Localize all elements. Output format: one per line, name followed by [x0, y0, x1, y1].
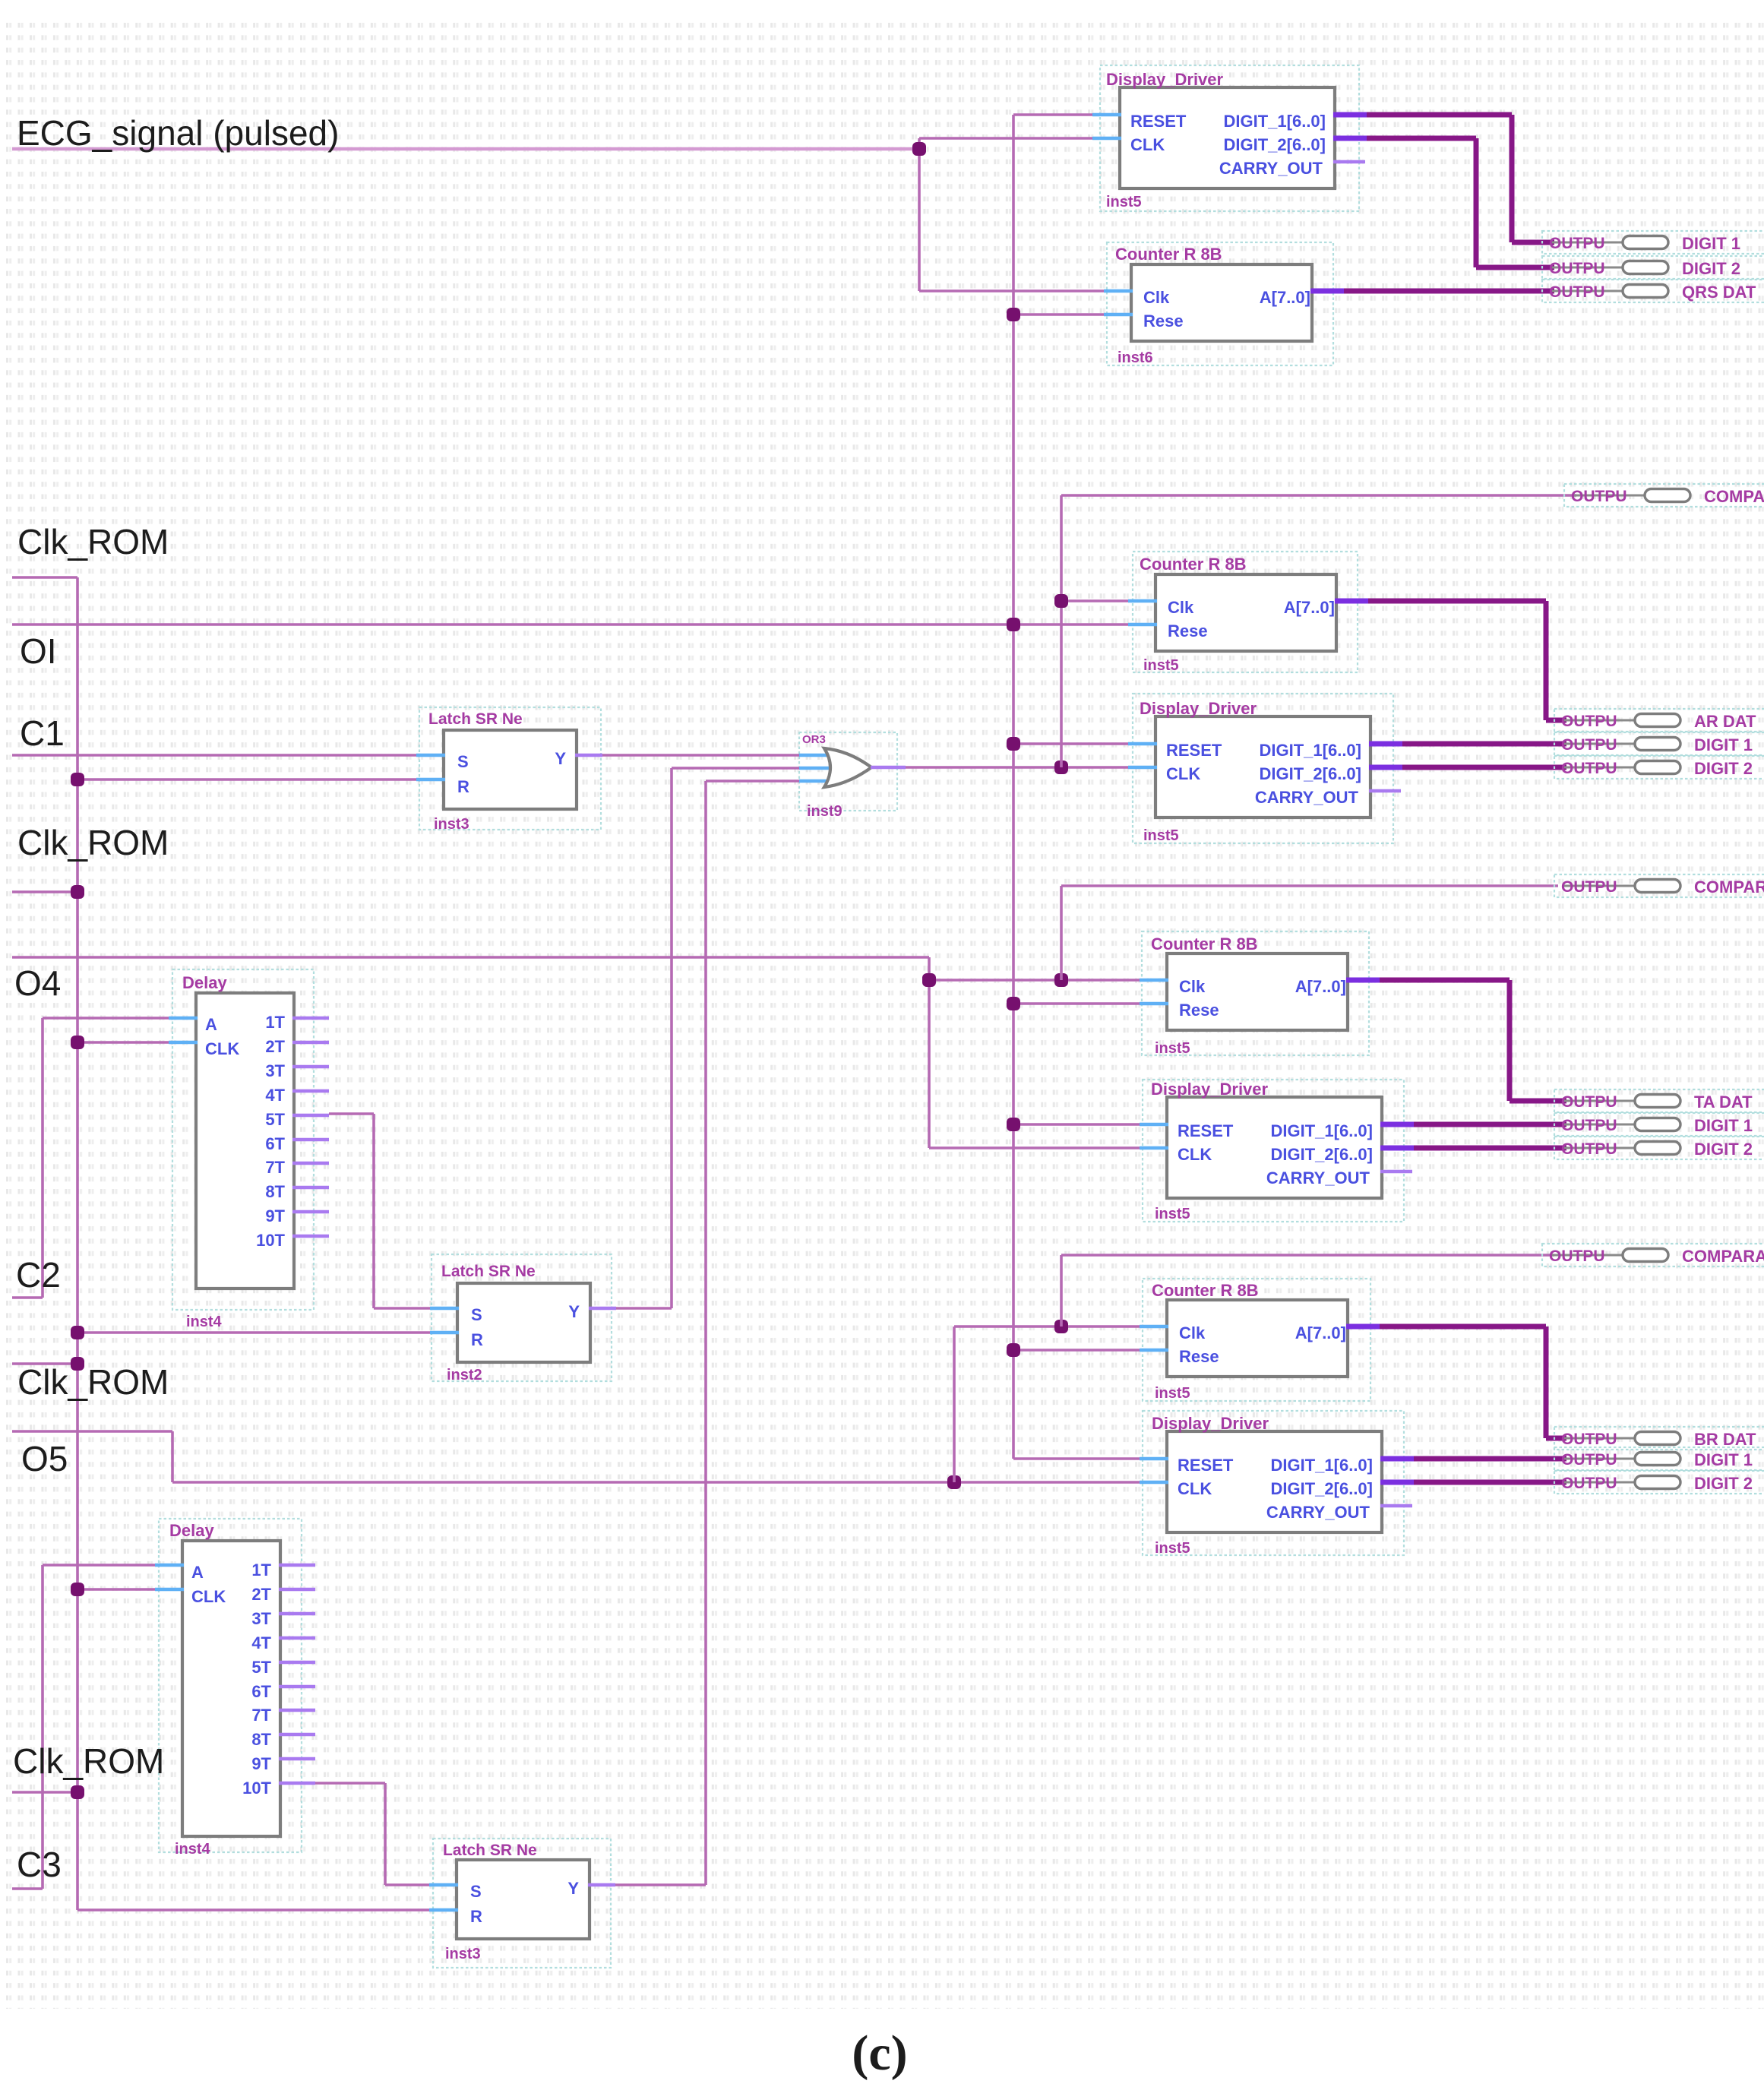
selection box Counter_R_8B inst5 (stage4) [1143, 1279, 1370, 1401]
pin stub CLK Display_Driver stage4 [1140, 1481, 1168, 1485]
junction Clk_ROM y=2092 [71, 1583, 84, 1596]
wire ECG branch to Clk of Counter inst6 [919, 289, 1105, 292]
out stub 3T Delay1 [292, 1065, 329, 1069]
output pin DIGIT (stage4 a) [1554, 1447, 1764, 1470]
svg-text:inst5: inst5 [1155, 1385, 1190, 1402]
pin stub OR input 2 [799, 767, 837, 770]
wire Clk_ROM branch to R of Latch inst3 (bottom) [77, 1908, 431, 1912]
junction Clk_ROM y=1795 [71, 1357, 84, 1371]
out stub 9T Delay1 [292, 1210, 329, 1214]
svg-text:Rese: Rese [1143, 311, 1184, 330]
wire C2 to A of Delay inst4 (top) [43, 1017, 170, 1020]
svg-text:AR DAT: AR DAT [1694, 712, 1756, 731]
svg-text:2T: 2T [265, 1037, 285, 1056]
svg-text:Clk_ROM: Clk_ROM [17, 823, 169, 862]
wire C3 vertical x=56 [41, 1565, 44, 1889]
svg-text:CLK: CLK [191, 1587, 226, 1606]
svg-text:inst9: inst9 [807, 803, 842, 820]
wire Latch1 Y to OR gate input 1 [601, 754, 799, 757]
svg-text:8T: 8T [265, 1182, 285, 1201]
svg-text:S: S [457, 752, 469, 771]
svg-text:BR DAT: BR DAT [1694, 1430, 1756, 1449]
svg-text:Y: Y [555, 749, 566, 768]
svg-text:Clk: Clk [1179, 1323, 1206, 1342]
junction ECG x=1210 y=196 [912, 142, 926, 156]
svg-text:DIGIT_2[6..0]: DIGIT_2[6..0] [1271, 1479, 1373, 1498]
out stub Y Latch2 [589, 1307, 616, 1311]
pin stub Clk Counter stage4 [1140, 1325, 1168, 1329]
out stub 1T Delay1 [292, 1017, 329, 1020]
svg-text:CLK: CLK [1178, 1479, 1212, 1498]
junction OI x=1334 y=822 [1007, 618, 1020, 631]
svg-text:R: R [470, 1907, 482, 1926]
svg-text:OUTPU: OUTPU [1561, 1475, 1617, 1492]
out stub 4T Delay2 [279, 1636, 315, 1640]
bus DIGIT_2[6..0] stage1 to DIGIT 2 pin [1367, 136, 1476, 141]
output pin QRS DAT (stage1) [1542, 280, 1764, 302]
svg-text:4T: 4T [265, 1086, 285, 1105]
svg-text:DIGIT_1[6..0]: DIGIT_1[6..0] [1224, 112, 1326, 131]
selection box Display_Driver inst5 (stage2) [1133, 694, 1393, 843]
svg-text:R: R [471, 1330, 483, 1349]
junction Clk_ROM y=1372 [71, 1036, 84, 1049]
bus stub DIGIT_2 DD3 [1380, 1146, 1414, 1151]
svg-text:A[7..0]: A[7..0] [1284, 598, 1335, 617]
bus stub DIGIT_1 DD3 [1380, 1122, 1414, 1127]
svg-text:1T: 1T [251, 1561, 271, 1579]
bus A[7..0] Counter stage4 to BR pin [1380, 1324, 1546, 1330]
svg-text:OUTPU: OUTPU [1549, 260, 1605, 277]
wire reset branch to RESET of Display_Driver stage3 [1013, 1123, 1141, 1126]
wire O5 riser to COMPAR pin x=1397 [1060, 1255, 1063, 1327]
svg-text:DIGIT 1: DIGIT 1 [1694, 1116, 1753, 1135]
junction Clk_ROM y=2359 [71, 1785, 84, 1799]
output pin COMPA (stage2 comparator) [1554, 874, 1764, 897]
svg-text:A: A [191, 1563, 204, 1582]
output pin DIGIT 2 (stage1) [1542, 256, 1764, 279]
svg-text:Y: Y [568, 1302, 580, 1321]
wire Clk_ROM branch to R of Latch inst2 [77, 1331, 432, 1334]
svg-text:DIGIT 2: DIGIT 2 [1694, 759, 1753, 778]
svg-text:TA DAT: TA DAT [1694, 1093, 1753, 1111]
svg-text:DIGIT 2: DIGIT 2 [1694, 1474, 1753, 1493]
svg-text:RESET: RESET [1178, 1121, 1234, 1140]
pin stub Rese Counter stage4 [1140, 1349, 1168, 1352]
pin stub S Latch1 [416, 754, 445, 757]
svg-text:C1: C1 [20, 713, 65, 753]
svg-text:DIGIT 2: DIGIT 2 [1682, 259, 1740, 278]
out stub 7T Delay2 [279, 1709, 315, 1712]
wire to COMP output pin [1061, 494, 1576, 497]
svg-text:C2: C2 [16, 1255, 61, 1295]
wire Clk_ROM trunk vertical x=102 [76, 577, 79, 1910]
svg-text:OUTPU: OUTPU [1561, 1431, 1617, 1448]
output pin DIGIT (stage3 b) [1554, 1137, 1764, 1159]
wire Clk_ROM input 1 [12, 576, 77, 579]
svg-text:inst5: inst5 [1155, 1206, 1190, 1222]
svg-text:OUTPU: OUTPU [1561, 878, 1617, 896]
svg-text:Display_Driver: Display_Driver [1151, 1080, 1269, 1099]
junction O4 x=1397 y=1290 [1054, 973, 1068, 987]
wire branch to Clk of Counter stage2 [1061, 599, 1130, 602]
selection box Display_Driver inst5 (stage3) [1143, 1080, 1404, 1222]
svg-text:OUTPU: OUTPU [1561, 760, 1617, 777]
svg-text:Rese: Rese [1179, 1347, 1219, 1366]
pin stub CLK Delay1 [169, 1041, 198, 1045]
pin stub CLK Display_Driver stage2 [1128, 766, 1157, 770]
pin stub A Delay2 [155, 1564, 184, 1567]
svg-text:CARRY_OUT: CARRY_OUT [1219, 159, 1323, 178]
output pin DIGIT (stage3 a) [1554, 1113, 1764, 1136]
wire Delay1 5T to S of Latch inst2 [329, 1112, 374, 1115]
svg-text:CLK: CLK [1178, 1145, 1212, 1164]
wire Latch2 Y to OR gate input 2 [615, 1307, 672, 1310]
block Latch_SR_Ne inst3 (bottom) [457, 1860, 590, 1939]
svg-text:OUTPU: OUTPU [1549, 235, 1605, 252]
junction reset x=1334 y=1480 [1007, 1118, 1020, 1131]
pin stub RESET Display_Driver stage4 [1140, 1457, 1168, 1461]
out stub 6T Delay1 [292, 1138, 329, 1142]
bus DIGIT_1[6..0] stage4 to DIGIT pin [1414, 1456, 1566, 1462]
selection box Counter_R_8B inst5 (stage3) [1142, 931, 1369, 1055]
svg-text:OUTPU: OUTPU [1561, 736, 1617, 754]
pin stub R Latch3 [429, 1908, 458, 1912]
block Display_Driver inst5 (top) [1120, 87, 1335, 188]
out stub CARRY_OUT DD2 [1369, 789, 1401, 793]
wire O5 riser x=1256 [953, 1327, 956, 1482]
wire reset branch to Rese of Counter stage4 [1013, 1349, 1141, 1352]
svg-text:Delay: Delay [169, 1521, 214, 1540]
block Latch_SR_Ne inst3 (top) [444, 730, 577, 809]
svg-text:OUTPU: OUTPU [1561, 1093, 1617, 1111]
bus DIGIT_2[6..0] stage2 to DIGIT pin [1402, 765, 1566, 770]
selection box Latch_SR_Ne inst3 (bottom) [433, 1839, 611, 1968]
output pin AR DAT (stage2) [1554, 709, 1764, 732]
svg-text:A[7..0]: A[7..0] [1295, 977, 1346, 996]
svg-text:Counter R 8B: Counter R 8B [1140, 555, 1247, 574]
svg-text:DIGIT_2[6..0]: DIGIT_2[6..0] [1260, 764, 1361, 783]
svg-text:6T: 6T [265, 1134, 285, 1153]
out stub CARRY_OUT DD3 [1380, 1170, 1412, 1174]
wire Clk_ROM input 2 [12, 890, 77, 893]
block Display_Driver inst5 (stage4) [1167, 1431, 1382, 1532]
junction O5 x=1256 y=1951 [947, 1475, 961, 1489]
svg-text:7T: 7T [265, 1158, 285, 1177]
output pin BR DAT (stage4) [1554, 1427, 1764, 1450]
wire OI reset trunk vertical x=1334 [1012, 115, 1015, 1459]
svg-text:COMPARA: COMPARA [1682, 1247, 1764, 1266]
svg-text:A: A [205, 1015, 217, 1034]
pin stub Clk Counter inst6 [1104, 289, 1133, 293]
svg-text:CARRY_OUT: CARRY_OUT [1266, 1503, 1370, 1522]
wire reset branch to RESET of Display_Driver inst5 (top) [1013, 113, 1094, 116]
svg-text:RESET: RESET [1130, 112, 1187, 131]
wire C2 input line [12, 1296, 43, 1299]
wire O5 input line [12, 1430, 172, 1433]
svg-text:(c): (c) [852, 2025, 907, 2081]
svg-text:ECG_signal (pulsed): ECG_signal (pulsed) [17, 113, 339, 153]
out stub 1T Delay2 [279, 1564, 315, 1567]
svg-text:DIGIT 1: DIGIT 1 [1682, 234, 1740, 253]
svg-text:3T: 3T [265, 1061, 285, 1080]
svg-text:Display_Driver: Display_Driver [1106, 70, 1224, 89]
block Latch_SR_Ne inst2 [457, 1283, 590, 1362]
svg-text:inst5: inst5 [1143, 657, 1179, 674]
pin stub CLK Delay2 [155, 1588, 184, 1592]
wire OR gate output to CLK of Display_Driver stage2 [904, 766, 1130, 769]
svg-text:R: R [457, 777, 469, 796]
out stub Y Latch3 [588, 1883, 615, 1887]
junction Clk_ROM y=1026 [71, 773, 84, 786]
svg-text:S: S [471, 1305, 482, 1324]
output pin DIGIT (stage2 a) [1554, 732, 1764, 755]
selection box OR gate inst9 [799, 732, 897, 811]
svg-text:Clk: Clk [1168, 598, 1194, 617]
pin stub S Latch3 [429, 1883, 458, 1887]
output pin COMPAR (stage3 comparator) [1542, 1244, 1764, 1266]
pin stub Clk Counter stage3 [1140, 979, 1168, 982]
bus stub A Counter3 [1346, 978, 1380, 983]
bus DIGIT_1[6..0] stage3 to DIGIT pin [1414, 1122, 1566, 1127]
svg-text:OUTPU: OUTPU [1549, 283, 1605, 301]
svg-text:DIGIT 1: DIGIT 1 [1694, 735, 1753, 754]
wire O4 input line [12, 956, 929, 959]
svg-text:Y: Y [567, 1879, 579, 1898]
svg-text:COMPA: COMPA [1704, 487, 1764, 506]
bus stub DIGIT_2 DD1 [1333, 136, 1367, 141]
wire Latch3 Y to OR gate input 3 [614, 1883, 706, 1886]
wire ECG vertical riser x=1210 [918, 138, 921, 291]
out stub 4T Delay1 [292, 1089, 329, 1093]
out stub Y Latch1 [575, 754, 602, 757]
svg-text:9T: 9T [265, 1206, 285, 1225]
svg-text:C3: C3 [17, 1845, 62, 1884]
out stub 8T Delay2 [279, 1733, 315, 1737]
pin stub OR input 3 [799, 779, 830, 783]
svg-text:CLK: CLK [1130, 135, 1165, 154]
wire Clk_ROM input 4 [12, 1791, 77, 1794]
svg-text:S: S [470, 1882, 482, 1901]
block Counter_R_8B inst5 (stage4) [1167, 1300, 1348, 1377]
svg-text:O5: O5 [21, 1439, 68, 1478]
svg-text:O4: O4 [14, 963, 61, 1003]
svg-text:Latch SR Ne: Latch SR Ne [441, 1263, 536, 1280]
block Counter_R_8B inst5 (stage2) [1155, 574, 1336, 651]
svg-text:A[7..0]: A[7..0] [1295, 1323, 1346, 1342]
bus DIGIT_2[6..0] stage3 to DIGIT pin [1414, 1146, 1566, 1151]
or-gate OR3 body [824, 748, 871, 787]
junction reset x=1334 y=1777 [1007, 1343, 1020, 1357]
output pin COMP (stage1 comparator) [1564, 484, 1764, 507]
svg-text:DIGIT_2[6..0]: DIGIT_2[6..0] [1271, 1145, 1373, 1164]
svg-text:2T: 2T [251, 1585, 271, 1604]
wire reset branch to Rese of Counter stage3 [1013, 1002, 1141, 1005]
pin stub CLK Display_Driver top [1092, 137, 1121, 141]
pin stub Rese Counter stage2 [1128, 623, 1157, 627]
selection box Counter_R_8B inst5 (stage2) [1133, 552, 1358, 672]
wire O5 to CLK of Display_Driver stage4 [172, 1481, 1141, 1484]
wire OI input line [12, 623, 1130, 626]
svg-text:Clk_ROM: Clk_ROM [17, 1362, 169, 1402]
svg-text:8T: 8T [251, 1730, 271, 1749]
selection box Delay inst4 (top) [172, 969, 314, 1310]
junction reset x=1334 y=1321 [1007, 997, 1020, 1010]
block Display_Driver inst5 (stage3) [1167, 1097, 1382, 1198]
selection box Display_Driver inst5 (stage4) [1143, 1411, 1404, 1555]
bus A[7..0] Counter inst6 to QRS pin [1344, 289, 1554, 294]
svg-text:Clk_ROM: Clk_ROM [13, 1741, 164, 1781]
svg-text:OUTPU: OUTPU [1571, 488, 1627, 505]
svg-text:9T: 9T [251, 1754, 271, 1773]
pin stub Rese Counter inst6 [1104, 313, 1133, 317]
wire Clk_ROM input 3 [12, 1362, 77, 1365]
junction reset x=1334 y=979 [1007, 737, 1020, 751]
svg-text:DIGIT_1[6..0]: DIGIT_1[6..0] [1271, 1121, 1373, 1140]
bus A[7..0] Counter stage2 to AR pin [1368, 599, 1546, 604]
svg-text:Rese: Rese [1179, 1001, 1219, 1020]
svg-text:7T: 7T [251, 1706, 271, 1725]
block Counter_R_8B inst5 (stage3) [1167, 953, 1348, 1030]
svg-text:5T: 5T [251, 1658, 271, 1677]
svg-text:OUTPU: OUTPU [1561, 713, 1617, 730]
pin stub Rese Counter stage3 [1140, 1002, 1168, 1006]
wire Clk_ROM branch to R of Latch inst3 (top) [77, 778, 418, 781]
svg-text:Display_Driver: Display_Driver [1140, 699, 1257, 718]
svg-text:CLK: CLK [1166, 764, 1200, 783]
svg-text:5T: 5T [265, 1110, 285, 1129]
bus DIGIT_2[6..0] stage4 to DIGIT pin [1414, 1480, 1566, 1485]
block Display_Driver inst5 (stage2) [1155, 716, 1370, 817]
bus DIGIT_1[6..0] stage1 to DIGIT 1 pin [1367, 112, 1512, 118]
bus DIGIT_1[6..0] stage2 to DIGIT pin [1402, 742, 1566, 747]
wire Clk_ROM branch to CLK of Delay inst4 (top) [77, 1041, 170, 1044]
wire O5 branch to Clk of Counter stage4 [954, 1325, 1141, 1328]
svg-text:DIGIT_1[6..0]: DIGIT_1[6..0] [1271, 1456, 1373, 1475]
bus stub DIGIT_1 DD4 [1380, 1456, 1414, 1462]
output pin TA DAT (stage3) [1554, 1089, 1764, 1112]
junction reset x=1334 y=414 [1007, 308, 1020, 321]
pin stub S Latch2 [430, 1307, 459, 1311]
wire ECG_signal (pulsed) horizontal [12, 147, 919, 151]
output pin DIGIT 1 (stage1) [1542, 231, 1764, 254]
wire reset branch to RESET of Display_Driver stage4 [1013, 1457, 1141, 1460]
out stub CARRY_OUT DD1 [1333, 160, 1365, 164]
svg-text:inst3: inst3 [445, 1946, 481, 1962]
svg-text:6T: 6T [251, 1682, 271, 1701]
svg-text:Clk: Clk [1143, 288, 1170, 307]
bus stub DIGIT_2 DD2 [1369, 765, 1402, 770]
bus stub A Counter1 [1310, 289, 1344, 294]
wire O4 vertical x=1223 [928, 957, 931, 1148]
svg-text:inst4: inst4 [175, 1841, 211, 1858]
svg-text:DIGIT 2: DIGIT 2 [1694, 1140, 1753, 1159]
junction O4 x=1223 y=1290 [922, 973, 936, 987]
pin stub RESET Display_Driver stage3 [1140, 1123, 1168, 1127]
svg-text:Delay: Delay [182, 973, 227, 992]
bus stub DIGIT_1 DD2 [1369, 742, 1402, 747]
wire O4 riser to COMPA pin x=1397 [1060, 886, 1063, 980]
wire O4 branch to Clk of Counter stage3 [929, 979, 1141, 982]
junction Clk_ROM y=1754 [71, 1326, 84, 1339]
svg-text:Counter R 8B: Counter R 8B [1115, 245, 1222, 264]
svg-text:RESET: RESET [1178, 1456, 1234, 1475]
wire O5 vertical x=227 [171, 1431, 174, 1482]
wire reset branch to Rese of Counter inst6 [1013, 313, 1105, 316]
svg-text:OUTPU: OUTPU [1549, 1247, 1605, 1265]
pin stub A Delay1 [169, 1017, 198, 1020]
svg-text:QRS DAT: QRS DAT [1682, 283, 1756, 302]
bus stub DIGIT_1 DD1 [1333, 112, 1367, 118]
wire Delay2 10T to S of Latch inst3 (bottom) [315, 1782, 385, 1785]
svg-text:OUTPU: OUTPU [1561, 1451, 1617, 1469]
out stub 9T Delay2 [279, 1757, 315, 1761]
pin stub Clk Counter stage2 [1128, 599, 1157, 603]
out stub 2T Delay2 [279, 1588, 315, 1592]
svg-text:DIGIT_1[6..0]: DIGIT_1[6..0] [1260, 741, 1361, 760]
pin stub RESET Display_Driver stage2 [1128, 742, 1157, 746]
wire to COMPA output pin [1061, 884, 1558, 887]
junction OR output x=1397 y=1010 [1054, 760, 1068, 774]
bus stub A Counter4 [1346, 1324, 1380, 1330]
out stub 2T Delay1 [292, 1041, 329, 1045]
selection box Display_Driver inst5 (top) [1100, 65, 1359, 211]
block Delay inst4 (bottom) [182, 1541, 280, 1836]
svg-text:Clk: Clk [1179, 977, 1206, 996]
svg-text:OUTPU: OUTPU [1561, 1140, 1617, 1158]
wire comparator riser x=1397 stage2 [1060, 495, 1063, 767]
svg-text:inst6: inst6 [1118, 349, 1153, 366]
svg-text:4T: 4T [251, 1633, 271, 1652]
svg-text:Latch SR Ne: Latch SR Ne [428, 710, 523, 728]
svg-text:inst5: inst5 [1155, 1540, 1190, 1557]
svg-text:10T: 10T [242, 1779, 271, 1798]
svg-text:Counter R 8B: Counter R 8B [1151, 934, 1258, 953]
out stub 6T Delay2 [279, 1685, 315, 1689]
block Delay inst4 (top) [196, 993, 294, 1289]
svg-text:3T: 3T [251, 1609, 271, 1628]
svg-text:OI: OI [20, 631, 57, 671]
wire to COMPAR output pin [1061, 1254, 1554, 1257]
svg-text:Counter R 8B: Counter R 8B [1152, 1281, 1259, 1300]
svg-text:inst5: inst5 [1143, 827, 1179, 844]
out stub 3T Delay2 [279, 1612, 315, 1616]
svg-text:inst5: inst5 [1155, 1040, 1190, 1057]
wire C1 to S of Latch inst3 (top) [12, 754, 418, 757]
svg-text:COMPAR: COMPAR [1694, 877, 1764, 896]
svg-text:DIGIT 1: DIGIT 1 [1694, 1450, 1753, 1469]
out stub CARRY_OUT DD4 [1380, 1504, 1412, 1508]
wire C3 input line [12, 1887, 43, 1890]
selection box Latch_SR_Ne inst3 (top) [419, 707, 601, 830]
out stub 5T Delay2 [279, 1661, 315, 1665]
svg-text:DIGIT_2[6..0]: DIGIT_2[6..0] [1224, 135, 1326, 154]
pin stub R Latch1 [416, 778, 445, 782]
selection box Delay inst4 (bottom) [159, 1519, 302, 1852]
svg-text:Clk_ROM: Clk_ROM [17, 522, 169, 561]
wire C2 vertical x=56 [41, 1018, 44, 1298]
out stub 8T Delay1 [292, 1186, 329, 1190]
bus A[7..0] Counter stage3 to TA pin [1380, 978, 1510, 983]
svg-text:inst2: inst2 [447, 1367, 482, 1383]
bus stub A Counter2 [1335, 599, 1368, 604]
svg-text:CARRY_OUT: CARRY_OUT [1266, 1168, 1370, 1187]
svg-text:inst3: inst3 [434, 816, 469, 833]
svg-text:1T: 1T [265, 1013, 285, 1032]
out stub 7T Delay1 [292, 1162, 329, 1165]
out stub 10T Delay2 [279, 1782, 315, 1785]
svg-text:Rese: Rese [1168, 621, 1208, 640]
pin stub R Latch2 [430, 1331, 459, 1335]
